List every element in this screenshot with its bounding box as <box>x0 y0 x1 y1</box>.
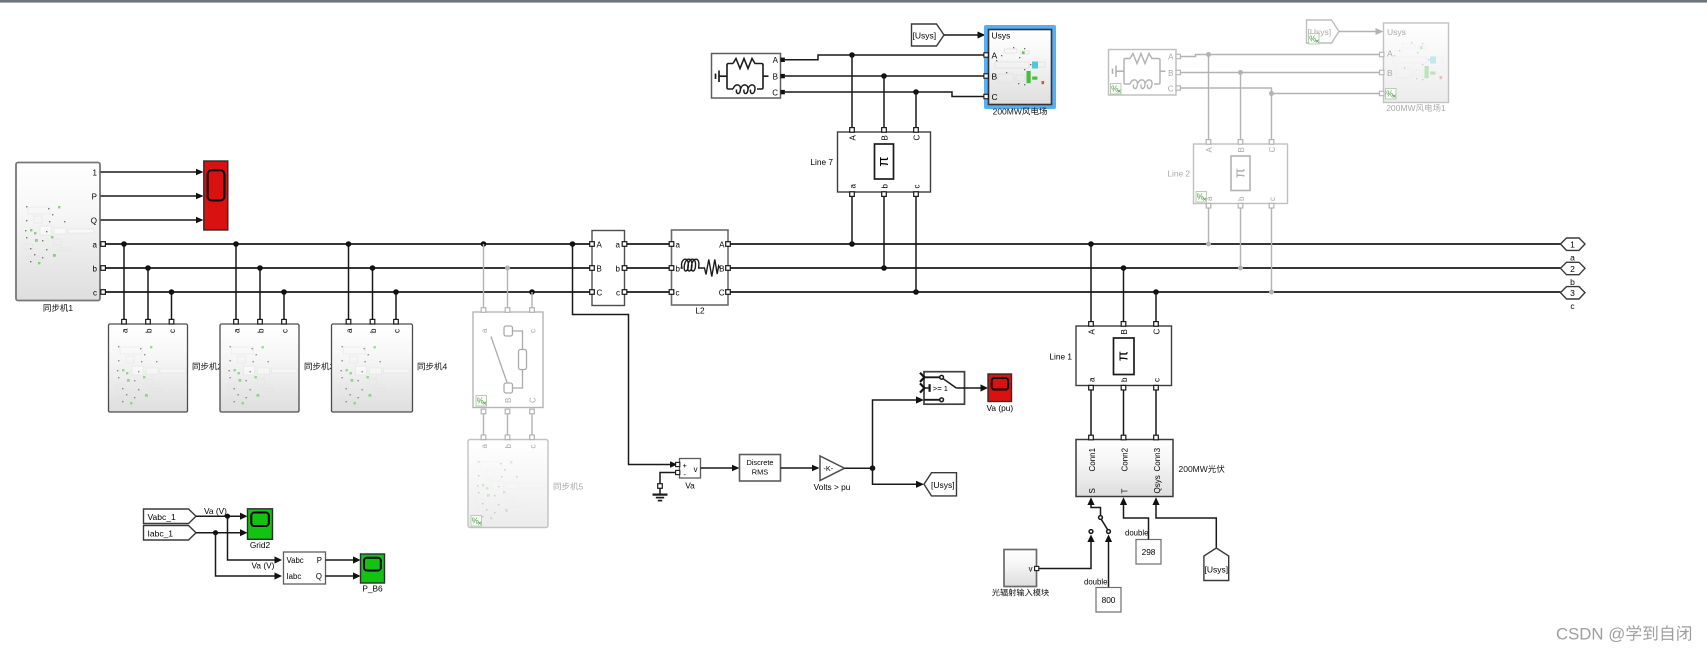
svg-text:C: C <box>1168 85 1174 94</box>
svg-text:a: a <box>480 444 489 449</box>
switch input3 contact <box>924 399 940 401</box>
svg-text:B: B <box>719 265 724 274</box>
wire 同步机4 phase b drop <box>372 268 374 321</box>
svg-text:Vabc: Vabc <box>287 556 304 565</box>
wire 同步机3 phase b drop <box>259 268 261 321</box>
svg-text:Va: Va <box>685 481 695 491</box>
icon inductor coils <box>733 85 755 94</box>
svg-text:5: 5 <box>579 482 584 492</box>
svg-text:Conn2: Conn2 <box>1121 447 1130 471</box>
svg-text:C: C <box>913 135 922 141</box>
wire 298 to PV T <box>1124 503 1149 540</box>
wire Iabc junction to PQ block <box>216 533 277 576</box>
svg-text:C: C <box>719 289 725 298</box>
svg-text:c: c <box>529 329 538 333</box>
svg-text:200MW: 200MW <box>1386 103 1415 113</box>
svg-text:a: a <box>480 328 489 333</box>
ground symbol <box>653 484 668 501</box>
svg-text:Q: Q <box>91 217 97 226</box>
svg-text:v: v <box>694 465 698 474</box>
port squares 同步机2 <box>122 319 174 324</box>
junction dots gray (commented branches) <box>505 242 1274 295</box>
scope P_B6 green <box>361 554 385 583</box>
wire junction down to goto Usys <box>873 468 918 484</box>
svg-text:b: b <box>676 265 681 274</box>
block Discrete RMS <box>740 455 781 482</box>
wire Vabc junction to PQ block <box>228 516 277 560</box>
svg-text:1: 1 <box>1570 240 1575 250</box>
svg-text:v: v <box>1029 564 1033 573</box>
output port 3 <box>1561 287 1586 299</box>
wire RLC A to windfarm A <box>785 55 985 60</box>
subsystem 200MW风电场 <box>989 30 1052 105</box>
svg-text:c: c <box>529 445 538 449</box>
scope block Va (pu) red <box>988 374 1012 402</box>
svg-text:Q: Q <box>316 572 322 581</box>
svg-text:P_B6: P_B6 <box>362 583 383 593</box>
from tag Iabc_1 <box>144 526 197 541</box>
svg-text:A: A <box>597 241 603 250</box>
from tag [Usys] PV <box>1204 548 1229 581</box>
svg-text:200MW: 200MW <box>1179 464 1208 474</box>
svg-text:A: A <box>773 56 779 65</box>
block Line 2 commented (pi section) <box>1194 144 1288 204</box>
svg-text:P: P <box>317 556 322 565</box>
svg-text:a: a <box>616 241 621 250</box>
subsystem 200MW风电场1 commented <box>1384 23 1449 103</box>
svg-text:T: T <box>1121 489 1130 494</box>
junction Vabc <box>225 514 230 519</box>
svg-text:B: B <box>597 265 602 274</box>
svg-text:C: C <box>597 289 603 298</box>
block voltage measurement Va <box>680 459 701 480</box>
breaker icon contacts <box>504 326 513 336</box>
commented group: wire RLC2 A to windfarm1 A <box>1176 55 1384 57</box>
svg-text:Vabc_1: Vabc_1 <box>148 512 176 522</box>
wire bus b to breaker b <box>507 268 509 308</box>
unconnected chevron input1 <box>920 373 924 382</box>
wire RLC B to windfarm B <box>785 75 985 77</box>
breaker icon shunt resistor <box>513 331 523 350</box>
svg-text:C: C <box>772 89 778 98</box>
badge comment Usys2 <box>1309 34 1320 45</box>
svg-text:Conn3: Conn3 <box>1153 447 1162 471</box>
port squares measurement <box>590 242 627 295</box>
wire Vabc_1 to Grid2 <box>196 515 243 517</box>
svg-text:b: b <box>881 184 890 189</box>
switch input1 contact <box>924 376 940 378</box>
label 同步机1 <box>44 304 69 312</box>
svg-text:b: b <box>145 328 154 333</box>
wire Usys2 tag to windfarm1 <box>1339 31 1377 33</box>
wire Line7 a down to bus a <box>851 196 853 244</box>
svg-text:Iabc_1: Iabc_1 <box>148 529 174 539</box>
port pads RLC A B C <box>781 58 785 95</box>
wire gain to junction <box>845 467 873 469</box>
switch lever <box>943 379 956 388</box>
wire 同步机3 phase a drop <box>235 244 237 321</box>
svg-text:A: A <box>1205 147 1214 153</box>
svg-text:A: A <box>719 241 725 250</box>
port squares 同步机4 <box>346 319 398 324</box>
svg-text:1: 1 <box>68 303 73 313</box>
svg-text:298: 298 <box>1142 547 1156 557</box>
from tag [Usys] commented <box>1307 20 1340 43</box>
port squares 同步机3 <box>234 319 287 324</box>
svg-text:c: c <box>1153 378 1162 382</box>
svg-text:b: b <box>257 328 266 333</box>
wire 800 to manual switch right <box>1108 540 1110 588</box>
svg-text:[Usys]: [Usys] <box>913 31 937 41</box>
wire bus b <box>103 267 1561 269</box>
junction dots windfarm1 feeders <box>1206 52 1274 96</box>
svg-text:-K-: -K- <box>824 464 834 473</box>
badge comment RLC2 <box>1111 84 1122 95</box>
port square 同步机1 c <box>101 290 106 295</box>
port squares windfarm A B C <box>984 53 988 99</box>
svg-text:c: c <box>616 289 620 298</box>
wire breaker B to 同步机5 b <box>507 412 509 436</box>
svg-text:C: C <box>1268 147 1277 153</box>
wire Line7 c down to bus c <box>915 196 917 292</box>
subsystem 200MW光伏 <box>1076 440 1173 497</box>
block Line 1 (pi section) <box>1076 326 1172 386</box>
wire bus b to Line1 B <box>1123 268 1125 322</box>
port squares Line2 <box>1206 140 1274 208</box>
svg-text:A: A <box>992 51 998 61</box>
block RLC source commented copy <box>1109 50 1177 96</box>
svg-text:a: a <box>345 328 354 333</box>
wire PQ P to P_B6 <box>326 559 356 561</box>
svg-text:a: a <box>1570 253 1575 263</box>
wire Line1 a to PV Conn1 <box>1090 390 1092 436</box>
output port 2 <box>1561 262 1586 274</box>
wire Va tap from bus a <box>573 244 672 465</box>
wire breaker A to 同步机5 a <box>483 412 485 436</box>
wire Va minus to ground <box>660 473 676 484</box>
svg-text:b: b <box>369 328 378 333</box>
svg-text:CSDN @: CSDN @ <box>1556 625 1625 644</box>
svg-text:a: a <box>93 241 98 250</box>
junction dots windfarm feeders <box>849 52 919 95</box>
wire Line7 B riser <box>883 76 885 128</box>
port squares 同步机5 <box>481 435 534 440</box>
svg-text:c: c <box>281 329 290 333</box>
label 光辐射输入模块 <box>992 589 1049 597</box>
port squares breaker <box>481 308 534 414</box>
svg-text:c: c <box>1268 197 1277 201</box>
wire Line2 B riser <box>1240 73 1242 141</box>
wire Line7 A riser <box>851 55 853 128</box>
breaker icon lever <box>491 337 507 383</box>
svg-text:Va (pu): Va (pu) <box>987 403 1014 413</box>
wire Line1 c to PV Conn3 <box>1155 390 1157 436</box>
top toolbar edge strip <box>0 0 1707 3</box>
wire 同步机1 out Q to scope <box>101 219 199 221</box>
output port 1 <box>1561 238 1586 250</box>
svg-text:P: P <box>92 193 97 202</box>
wire Va v out to Discrete RMS <box>701 467 736 469</box>
wire 同步机2 phase a drop <box>123 244 125 321</box>
wire Line2 a down to bus a <box>1208 208 1210 245</box>
svg-text:c: c <box>393 329 402 333</box>
wire junction up to switch input 3 <box>873 400 918 468</box>
wire RLC C to windfarm C <box>785 92 985 97</box>
icon parallel loop <box>727 64 769 90</box>
constant block 800 <box>1096 588 1121 613</box>
svg-text:c: c <box>913 185 922 189</box>
wire 同步机2 phase b drop <box>147 268 149 321</box>
svg-text:2: 2 <box>1570 264 1575 274</box>
svg-text:π: π <box>1114 351 1131 361</box>
wire RLC2 B to windfarm1 B <box>1176 72 1384 74</box>
wire 同步机1 out P to scope <box>101 195 199 197</box>
wire bus c to breaker c <box>531 292 533 308</box>
port squares L2 <box>669 242 730 295</box>
badge comment 同步机5 <box>471 516 482 527</box>
svg-text:a: a <box>1088 377 1097 382</box>
wire Line2 C riser <box>1271 94 1273 141</box>
svg-text:C: C <box>992 92 998 102</box>
badge comment breaker <box>476 396 487 407</box>
svg-text:Line 2: Line 2 <box>1167 169 1190 179</box>
svg-text:>= 1: >= 1 <box>933 384 948 393</box>
svg-text:A: A <box>1168 53 1174 62</box>
wire Line7 C riser <box>915 92 917 128</box>
wire breaker C to 同步机5 c <box>531 412 533 436</box>
scope block (red) machine1 <box>204 161 228 230</box>
subsystem 同步机1 <box>16 163 100 301</box>
svg-text:C: C <box>529 397 538 403</box>
svg-text:double: double <box>1084 577 1107 586</box>
block three-phase measurement B1 <box>592 231 625 306</box>
svg-text:1: 1 <box>93 169 98 178</box>
goto tag [Usys] <box>924 473 957 496</box>
wire Usys tag to windfarm <box>944 34 979 36</box>
label 同步机3 <box>305 362 330 370</box>
icon source ground bars <box>716 71 728 83</box>
block Line 7 (pi section) <box>838 132 931 192</box>
svg-text:B: B <box>1168 69 1173 78</box>
block three-phase breaker commented <box>473 312 543 408</box>
svg-text:c: c <box>93 289 97 298</box>
badge comment Line2 <box>1196 192 1207 203</box>
svg-text:c: c <box>168 329 177 333</box>
wire PQ Q to P_B6 <box>326 575 356 577</box>
label 同步机2 <box>193 362 218 370</box>
svg-text:a: a <box>849 184 858 189</box>
svg-text:800: 800 <box>1102 595 1116 605</box>
unconnected chevron input2 <box>920 383 924 392</box>
svg-text:b: b <box>1120 377 1129 382</box>
svg-text:1: 1 <box>1441 103 1446 113</box>
pi symbol box <box>875 144 894 179</box>
wire switch out to scope <box>965 387 984 389</box>
svg-text:B: B <box>773 73 778 82</box>
badge comment windfarm1 <box>1386 89 1397 100</box>
svg-text:B: B <box>1387 68 1393 78</box>
wire 同步机3 phase c drop <box>283 292 285 321</box>
svg-text:B: B <box>992 72 998 82</box>
label 同步机5 <box>554 482 579 490</box>
label 同步机4 <box>418 362 443 370</box>
port squares Va <box>676 462 680 474</box>
svg-text:Volts > pu: Volts > pu <box>814 482 851 492</box>
svg-text:A: A <box>1088 329 1097 335</box>
svg-text:Grid2: Grid2 <box>250 540 271 550</box>
from tag Vabc_1 <box>144 509 197 524</box>
svg-text:Discrete: Discrete <box>746 458 773 467</box>
wire 同步机1 out 1 to scope <box>101 171 199 173</box>
svg-text:[Usys]: [Usys] <box>931 480 955 490</box>
L2 icon inductor <box>681 259 703 271</box>
subsystem 同步机3 <box>220 324 299 412</box>
wire Iabc_1 to Grid2 <box>196 532 243 534</box>
wire bus c <box>103 291 1561 293</box>
wire RMS to gain <box>781 467 816 469</box>
wire Line2 c down to bus c <box>1271 208 1273 293</box>
wire Line7 b down to bus b <box>883 196 885 268</box>
wire bus a to Line1 A <box>1090 244 1092 322</box>
svg-text:B: B <box>504 398 513 403</box>
svg-text:b: b <box>1570 277 1575 287</box>
svg-text:Line 1: Line 1 <box>1049 352 1072 362</box>
block L2 series RL branch <box>672 230 729 305</box>
wire Line1 b to PV Conn2 <box>1123 390 1125 436</box>
wire Line2 b down to bus b <box>1240 208 1242 269</box>
block three-phase parallel RLC source <box>712 54 781 99</box>
wire from tag Usys to PV Qsys <box>1156 503 1216 548</box>
subsystem 同步机2 <box>109 324 188 412</box>
wire 同步机4 phase a drop <box>348 244 350 321</box>
wire RLC2 C to windfarm1 C <box>1176 88 1384 94</box>
svg-text:a: a <box>121 328 130 333</box>
svg-text:RMS: RMS <box>752 468 768 477</box>
svg-text:S: S <box>1088 488 1097 493</box>
port squares Line1 <box>1089 322 1159 390</box>
wire 同步机2 phase c drop <box>171 292 173 321</box>
scope Grid2 green <box>248 509 273 540</box>
svg-text:Va (V): Va (V) <box>252 560 275 570</box>
svg-text:Line 7: Line 7 <box>810 157 833 167</box>
svg-text:[Usys]: [Usys] <box>1204 565 1228 575</box>
svg-text:double: double <box>1125 529 1148 538</box>
junction dots buses machines <box>121 241 1159 295</box>
svg-text:B: B <box>1237 147 1246 152</box>
svg-text:a: a <box>676 241 681 250</box>
svg-text:b: b <box>616 265 621 274</box>
wire 同步机4 phase c drop <box>395 292 397 321</box>
port pads RLC2 <box>1176 54 1180 90</box>
L2 icon resistor <box>703 260 720 277</box>
svg-text:Qsys: Qsys <box>1153 475 1162 493</box>
svg-text:A: A <box>849 135 858 141</box>
svg-text:Usys: Usys <box>992 31 1011 41</box>
wire Line2 A riser <box>1208 55 1210 141</box>
port squares PV Conn1-3 <box>1089 435 1159 440</box>
svg-text:C: C <box>1153 329 1162 335</box>
svg-text:π: π <box>1231 168 1248 178</box>
wire bus a to breaker a <box>483 244 485 308</box>
svg-text:A: A <box>1387 49 1393 59</box>
port square 同步机1 b <box>101 266 106 271</box>
wire bus c to Line1 C <box>1155 292 1157 322</box>
port square 光辐射 out <box>1035 566 1039 570</box>
junction Iabc <box>213 530 218 535</box>
icon resistor zigzag <box>733 59 757 69</box>
block 光辐射输入模块 <box>1004 550 1037 587</box>
svg-text:+: + <box>683 461 688 470</box>
svg-text:3: 3 <box>1570 288 1575 298</box>
svg-text:b: b <box>504 444 513 449</box>
port pads windfarm1 <box>1380 52 1384 95</box>
svg-text:Iabc: Iabc <box>287 572 302 581</box>
gain Volts > pu <box>820 456 845 481</box>
junction Volts signal <box>870 465 876 471</box>
svg-text:Usys: Usys <box>1387 27 1406 37</box>
constant block 298 <box>1136 540 1161 565</box>
subsystem 同步机5 commented <box>468 440 548 528</box>
port squares Line7 top <box>850 128 919 133</box>
svg-text:4: 4 <box>443 362 448 372</box>
selection frame windfarm <box>984 25 1056 109</box>
wire bus a <box>103 243 1561 245</box>
block PQ measurement <box>284 552 326 584</box>
svg-text:a: a <box>233 328 242 333</box>
svg-text:200MW: 200MW <box>993 107 1022 117</box>
svg-text:b: b <box>93 265 98 274</box>
svg-text:Conn1: Conn1 <box>1088 447 1097 471</box>
switch block <box>920 372 965 405</box>
manual switch S input <box>1087 497 1110 533</box>
wire 光辐射 to manual switch left <box>1037 540 1091 569</box>
port squares Line7 bottom <box>850 192 919 197</box>
from tag [Usys] wind <box>912 24 945 46</box>
port square 同步机1 a <box>101 242 106 247</box>
svg-text:b: b <box>1237 196 1246 201</box>
subsystem 同步机4 <box>332 324 413 412</box>
svg-text:π: π <box>875 156 892 166</box>
svg-text:c: c <box>676 289 680 298</box>
svg-text:L2: L2 <box>695 306 705 316</box>
switch threshold mark <box>924 387 929 389</box>
svg-text:B: B <box>881 135 890 140</box>
svg-text:B: B <box>1120 329 1129 334</box>
svg-text:Va (V): Va (V) <box>204 506 227 516</box>
